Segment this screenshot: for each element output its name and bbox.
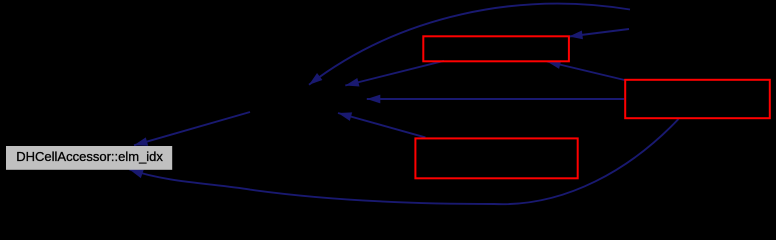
svg-text:DHCellAccessor::elm_idx: DHCellAccessor::elm_idx [16, 149, 163, 164]
